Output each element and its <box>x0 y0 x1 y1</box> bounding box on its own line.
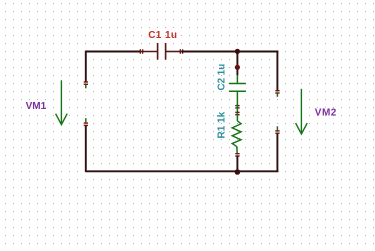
svg-text:C2 1u: C2 1u <box>216 64 227 91</box>
junction node dot at bottom rail / R1 branch <box>235 169 241 175</box>
svg-text:C1 1u: C1 1u <box>148 30 177 41</box>
pin marker VM1 pin 2 (x marks) <box>84 122 88 126</box>
pin marker VM2 pin 1 (x marks) <box>275 90 279 94</box>
capacitor C1 (selected, red) <box>141 43 181 60</box>
voltmeter VM1 top green lead stub <box>85 85 87 89</box>
pin marker VM1 pin 1 (x marks) <box>84 81 88 85</box>
svg-text:VM1: VM1 <box>26 101 47 112</box>
wire top rail right segment <box>181 51 278 53</box>
svg-text:R1 1k: R1 1k <box>216 111 227 138</box>
junction node dot at top rail / C2 branch <box>235 49 240 54</box>
pin marker C1 pin 2 (x marks) <box>180 49 184 53</box>
voltmeter VM2 bottom green lead stub <box>276 126 278 130</box>
wire right rail upper segment <box>276 51 278 90</box>
wire top rail left segment <box>86 51 141 53</box>
resistor R1 (green zigzag symbol) <box>232 113 241 154</box>
pin marker R1 pin 2 (x marks) <box>235 153 239 157</box>
wire left rail upper segment <box>85 51 87 82</box>
capacitor C2 (green symbol) <box>229 75 246 105</box>
junction node dot at C2 top pin <box>235 65 240 70</box>
voltmeter VM1 arrow symbol <box>56 80 68 124</box>
wire bottom rail <box>86 170 279 172</box>
wire right rail lower segment <box>276 134 278 173</box>
wire left rail lower segment <box>85 126 87 172</box>
pin marker R1 pin 1 (x marks) <box>235 112 239 116</box>
voltmeter VM2 top green lead stub <box>276 93 278 97</box>
pin marker C1 pin 1 (x marks) <box>140 49 144 53</box>
wire center branch top (node to C2) <box>236 52 238 76</box>
pin marker VM2 pin 2 (x marks) <box>275 130 279 134</box>
wire center branch bottom (R1 to bottom rail) <box>236 156 238 171</box>
wire between C2 and R1 <box>236 105 238 113</box>
voltmeter VM2 arrow symbol <box>296 89 308 134</box>
svg-text:VM2: VM2 <box>315 107 337 118</box>
voltmeter VM1 bottom green lead stub <box>85 118 87 122</box>
pin marker C2 pin 2 (x marks) <box>235 105 239 109</box>
